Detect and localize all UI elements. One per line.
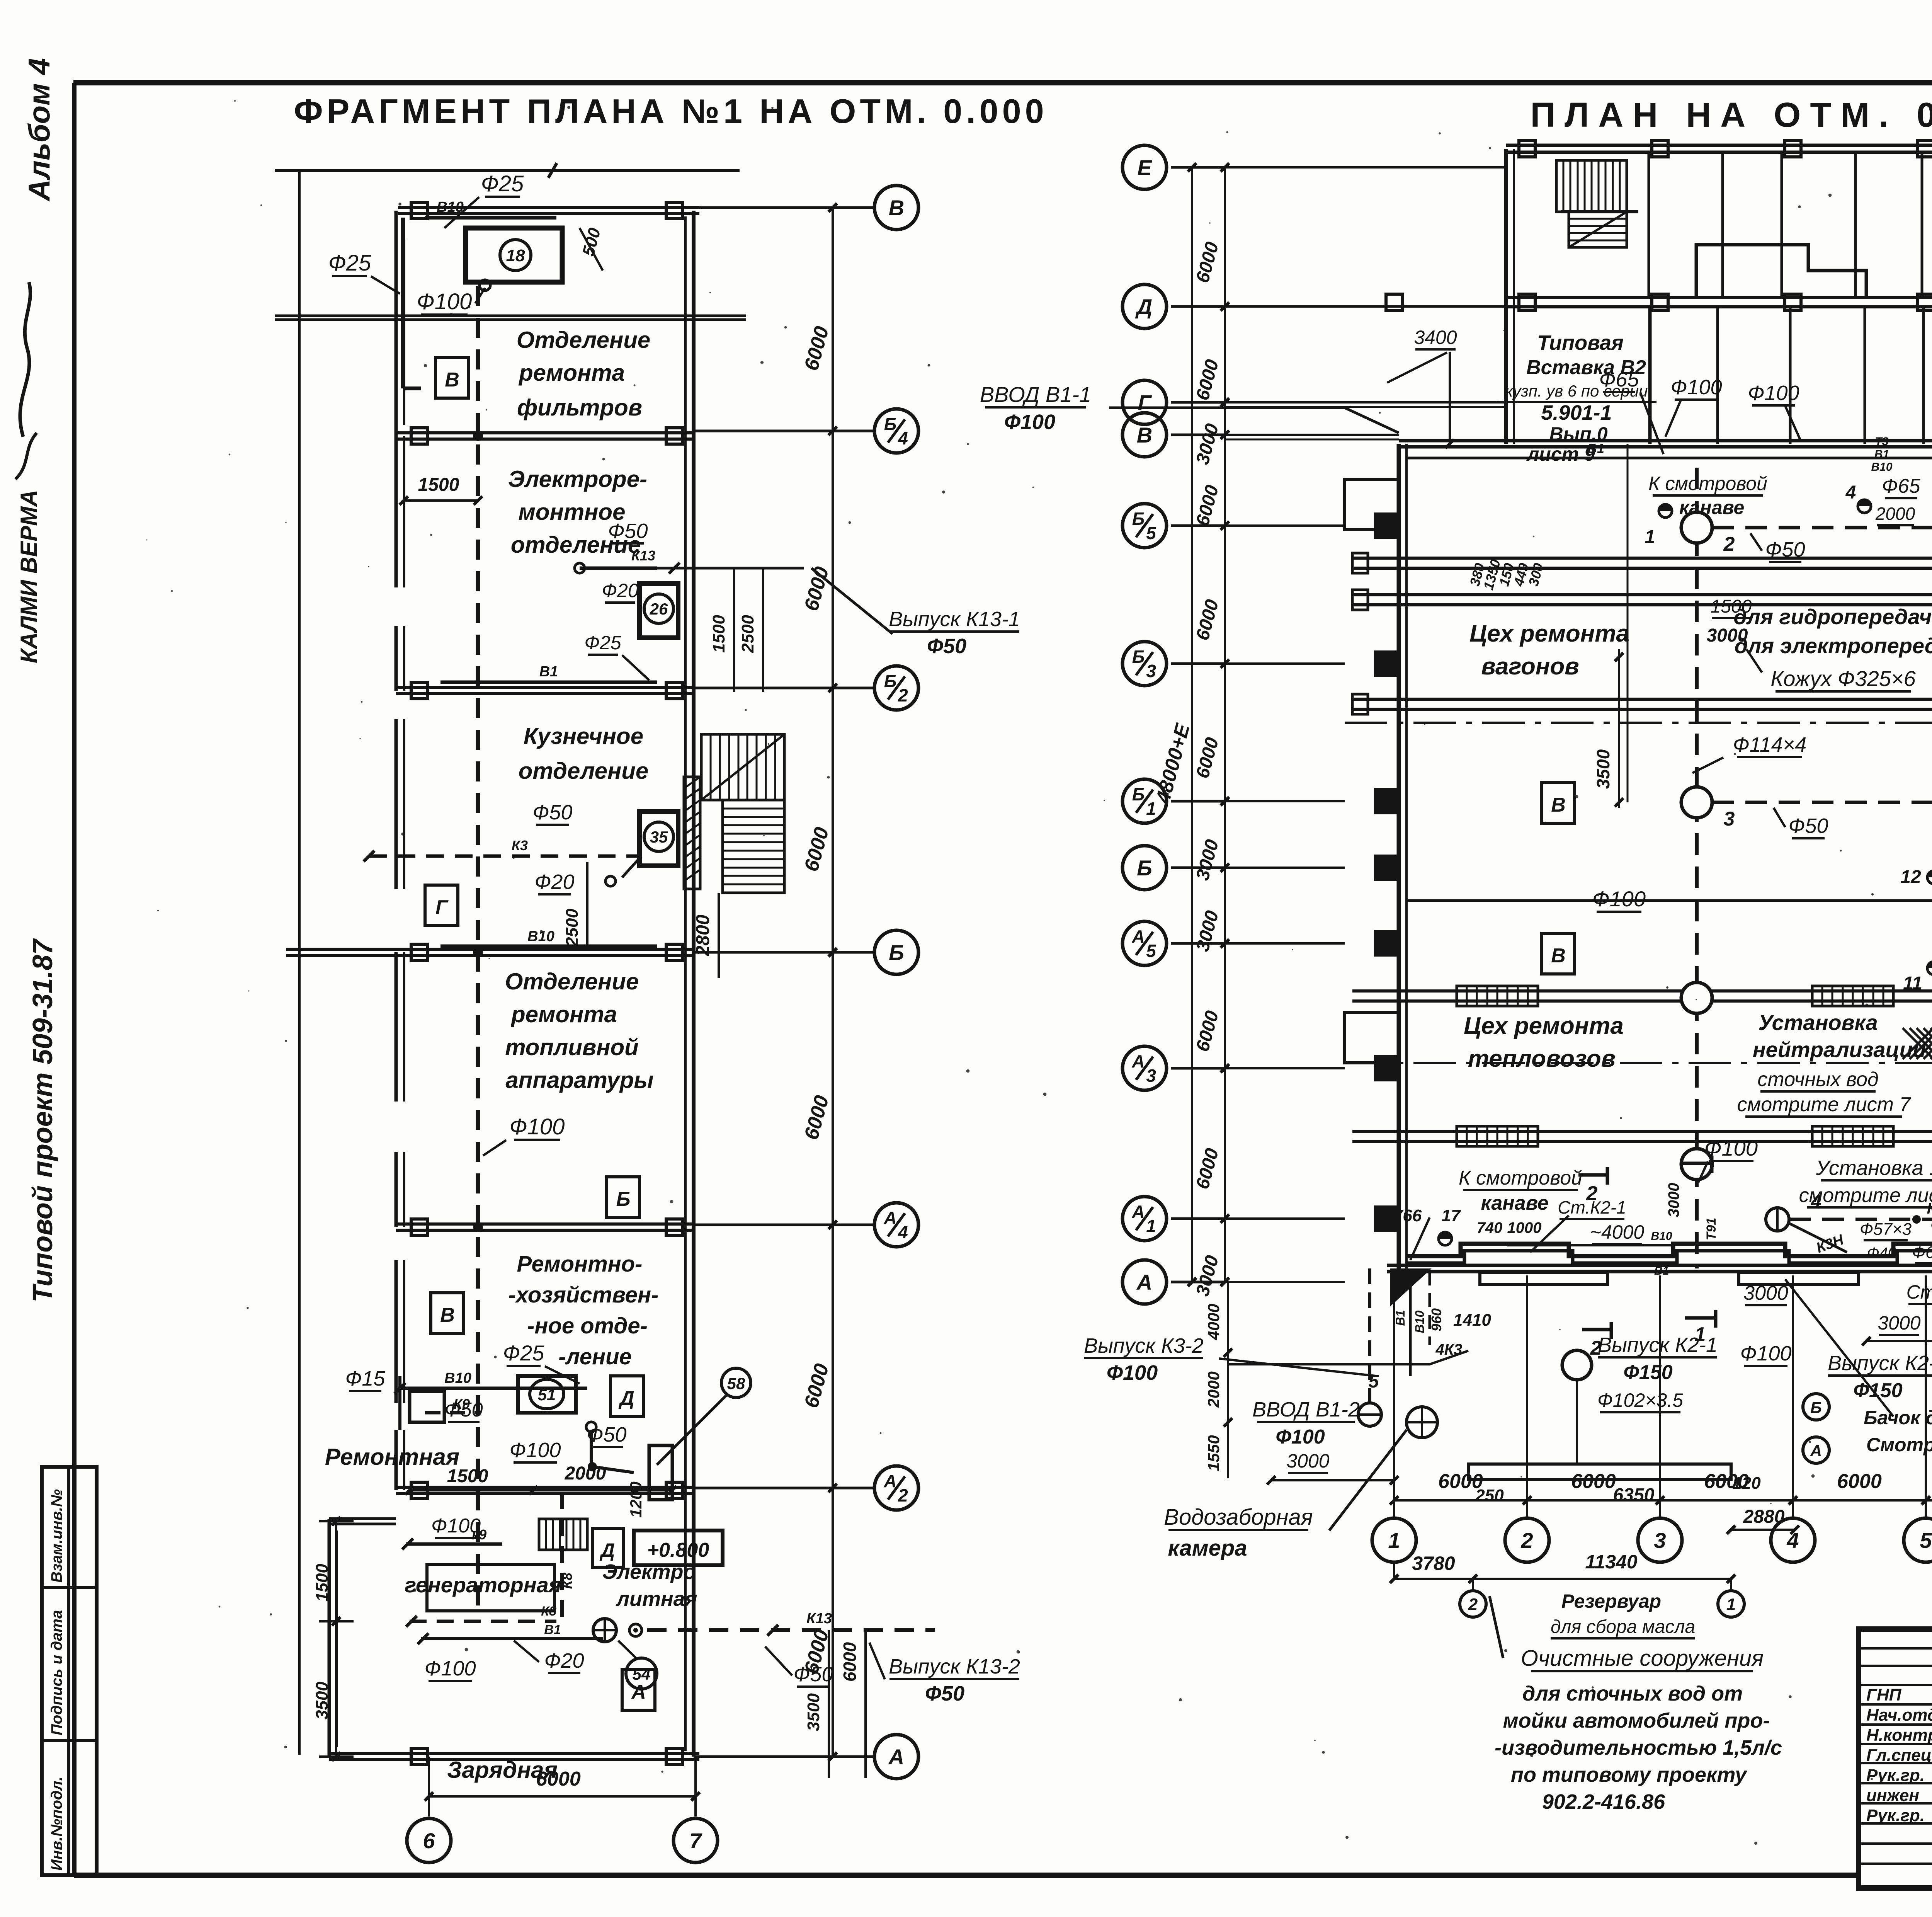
svg-text:4К3: 4К3 (1435, 1341, 1462, 1358)
svg-text:Ф150: Ф150 (1623, 1361, 1672, 1384)
axis circle А/2 (left plan) (874, 1466, 918, 1510)
svg-text:Е: Е (1137, 155, 1152, 180)
svg-text:Ф65: Ф65 (1882, 475, 1920, 497)
svg-text:1: 1 (1146, 1216, 1156, 1236)
left plan: circled 54 (626, 1658, 657, 1689)
axis circle Б/1 (center plan left) (1122, 779, 1167, 823)
svg-text:Отделение: Отделение (505, 969, 639, 994)
center plan: K3 horizontal dashed row 2 (1712, 801, 1932, 804)
svg-text:6000: 6000 (1837, 1470, 1882, 1493)
svg-text:Ф20: Ф20 (535, 870, 575, 894)
axis circle Е (center plan left) (1122, 145, 1167, 189)
svg-text:К13: К13 (806, 1611, 832, 1627)
svg-text:Электроре-: Электроре- (508, 466, 647, 492)
axis circle А/3 (center plan left) (1122, 1046, 1167, 1090)
center plan: drain channel rect bottom (1468, 1464, 1731, 1479)
left plan: room class box B(Б) (607, 1177, 639, 1217)
svg-text:ВВОД В1-2: ВВОД В1-2 (1252, 1398, 1360, 1421)
svg-text:ремонта: ремонта (510, 1001, 617, 1027)
svg-text:11340: 11340 (1585, 1551, 1638, 1573)
svg-text:Ф15: Ф15 (345, 1367, 386, 1390)
center plan: water intake symbol (1406, 1407, 1437, 1438)
svg-text:11: 11 (1903, 973, 1922, 994)
svg-text:Ф100: Ф100 (1670, 376, 1722, 399)
svg-text:2: 2 (1590, 1337, 1602, 1359)
svg-text:аппаратуры: аппаратуры (505, 1067, 653, 1093)
left plan: right wall (692, 211, 696, 1757)
center plan: K3H dashed run bottom (1766, 1208, 1789, 1231)
svg-text:1500: 1500 (418, 475, 459, 495)
svg-text:1500: 1500 (1711, 596, 1752, 617)
axis circle А (center plan left) (1122, 1260, 1167, 1304)
axis circle Б/3 (center plan left) (1122, 642, 1167, 686)
left plan: dashed K3 line kuznech (369, 855, 641, 858)
center plan: left overall dim line 48000+E (1191, 167, 1193, 1282)
svg-text:1500: 1500 (709, 615, 728, 653)
center plan: annex top wall (1506, 144, 1932, 147)
center plan: hall track band 2 (1352, 593, 1932, 596)
svg-text:Кузнечное: Кузнечное (524, 723, 643, 749)
axis circle А (left plan) (874, 1735, 918, 1779)
svg-text:5: 5 (1146, 523, 1156, 543)
center plan: left dim line segments (1224, 167, 1226, 1282)
axis circle В (left plan) (874, 186, 918, 230)
svg-text:К8: К8 (559, 1573, 575, 1589)
svg-text:2000: 2000 (565, 1463, 606, 1484)
svg-text:В1: В1 (544, 1622, 561, 1637)
left plan: wall axis A/4 (396, 1222, 694, 1226)
axis circle Г (center plan left) (1122, 380, 1167, 424)
left plan: equipment 35 (639, 812, 678, 866)
svg-text:2: 2 (1520, 1528, 1533, 1553)
center plan: annex staircase (1556, 160, 1627, 212)
svg-text:для сточных вод от: для сточных вод от (1522, 1682, 1743, 1705)
svg-text:Цех ремонта: Цех ремонта (1464, 1013, 1624, 1039)
axis circle А/1 (center plan left) (1122, 1197, 1167, 1241)
svg-text:Ремонтно-: Ремонтно- (517, 1251, 643, 1277)
svg-text:2880: 2880 (1743, 1507, 1785, 1527)
svg-text:В: В (1551, 794, 1566, 816)
svg-text:А: А (1810, 1442, 1822, 1460)
title block main frame (1859, 1629, 1932, 1888)
svg-text:Б: Б (884, 671, 897, 691)
bottom-left strip table (42, 1467, 97, 1875)
svg-text:Установка 1кЗН: Установка 1кЗН (1816, 1156, 1932, 1180)
svg-text:6350: 6350 (1613, 1485, 1655, 1505)
left plan: staircase outside right wall (701, 734, 784, 800)
svg-text:Кожух Ф325×6: Кожух Ф325×6 (1770, 666, 1916, 691)
center plan: axis line extensions to walls (1225, 166, 1506, 169)
svg-text:Смотрите лист 7: Смотрите лист 7 (1866, 1434, 1932, 1456)
svg-text:Ф20: Ф20 (544, 1649, 584, 1672)
center plan: mid band room (tipovaya vstavka) (1648, 307, 1652, 444)
center plan: hall left wall pilasters (1376, 514, 1399, 537)
svg-text:А: А (1131, 1051, 1145, 1071)
svg-text:18: 18 (506, 246, 525, 265)
svg-text:А: А (888, 1745, 904, 1769)
svg-text:канаве: канаве (1679, 497, 1745, 518)
svg-text:Н.контр: Н.контр (1866, 1726, 1932, 1745)
axis circle Д (center plan left) (1122, 284, 1167, 329)
svg-text:Ф25: Ф25 (503, 1341, 545, 1365)
svg-text:Ф100: Ф100 (510, 1114, 565, 1139)
left plan: left wall segments (395, 436, 398, 587)
svg-text:фильтров: фильтров (517, 395, 642, 421)
svg-text:2500: 2500 (563, 909, 582, 947)
svg-text:~4000: ~4000 (1590, 1221, 1645, 1243)
svg-text:Инв.№подл.: Инв.№подл. (48, 1776, 65, 1871)
center plan: annex inner room (top middle) (1696, 245, 1866, 298)
svg-text:Ф50: Ф50 (1765, 538, 1805, 561)
axis circle В (center plan left) (1122, 413, 1167, 457)
svg-text:3000: 3000 (1286, 1450, 1329, 1472)
center plan: vertical thin line x=4190 (1627, 444, 1629, 802)
svg-text:мойки автомобилей про-: мойки автомобилей про- (1503, 1709, 1770, 1732)
svg-text:А: А (1131, 926, 1145, 947)
left plan: room class box D (611, 1376, 643, 1416)
svg-text:Б: Б (1810, 1398, 1822, 1416)
svg-text:4: 4 (898, 428, 908, 448)
svg-text:В10: В10 (444, 1370, 471, 1386)
svg-text:3500: 3500 (1593, 749, 1613, 789)
svg-text:К3: К3 (1927, 1200, 1932, 1217)
left plan: outer long vertical guide line (298, 170, 301, 1755)
svg-text:к9: к9 (472, 1527, 486, 1542)
left plan: riser F25 vertical (401, 218, 405, 388)
svg-text:отделение: отделение (519, 758, 649, 784)
svg-text:3000: 3000 (1665, 1183, 1682, 1217)
svg-text:2: 2 (898, 685, 908, 705)
svg-text:В1: В1 (1654, 1265, 1669, 1277)
svg-text:Гл.спец: Гл.спец (1866, 1746, 1932, 1765)
svg-text:Выпуск К13-1: Выпуск К13-1 (889, 608, 1020, 631)
svg-text:ФРАГМЕНТ ПЛАНА №1 НА ОТМ. 0.00: ФРАГМЕНТ ПЛАНА №1 НА ОТМ. 0.000 (294, 92, 1048, 130)
center plan: hall track band 1 (1352, 557, 1932, 560)
svg-text:3: 3 (1146, 1066, 1156, 1086)
svg-text:Ст.К2-1: Ст.К2-1 (1558, 1197, 1626, 1217)
svg-text:канаве: канаве (1481, 1192, 1548, 1214)
svg-text:1: 1 (1388, 1528, 1400, 1553)
left plan: pipe B1 along wall (440, 681, 657, 684)
svg-text:Ф100: Ф100 (417, 289, 472, 314)
svg-text:Т91: Т91 (1704, 1218, 1719, 1241)
center plan: F102x3.5 + circle (1562, 1350, 1592, 1380)
svg-text:2000: 2000 (1204, 1371, 1223, 1408)
center plan: outlet arrow blob (1390, 1268, 1432, 1306)
svg-text:тепловозов: тепловозов (1468, 1045, 1616, 1072)
center plan: mid band partitions (1716, 307, 1719, 444)
svg-text:К смотровой: К смотровой (1648, 473, 1767, 494)
svg-text:3: 3 (1146, 661, 1156, 681)
svg-text:Водозаборная: Водозаборная (1164, 1505, 1313, 1530)
svg-text:1: 1 (1146, 798, 1156, 819)
center plan: B boxes (1542, 783, 1575, 823)
svg-text:топливной: топливной (505, 1034, 639, 1060)
svg-text:4: 4 (1845, 482, 1856, 503)
svg-text:Ф50: Ф50 (533, 801, 573, 824)
center plan: B1 pipe along top wall (1406, 457, 1932, 460)
center plan: hall track band 3 (1352, 698, 1932, 701)
center plan: lower second dim row 3780 11340 (1394, 1578, 1473, 1580)
svg-text:6000: 6000 (1571, 1470, 1616, 1493)
left plan: room class box A (622, 1670, 655, 1710)
center plan: hall track band 4 (teplovoz) (1352, 989, 1932, 993)
svg-text:Выпуск К3-2: Выпуск К3-2 (1084, 1334, 1204, 1357)
svg-text:902.2-416.86: 902.2-416.86 (1542, 1790, 1665, 1813)
svg-text:Д: Д (1135, 295, 1152, 319)
svg-text:2500: 2500 (738, 615, 757, 653)
center plan: pump 5 (1358, 1403, 1381, 1426)
svg-text:В10: В10 (1651, 1230, 1672, 1243)
svg-text:-ное отде-: -ное отде- (527, 1313, 648, 1338)
svg-text:4: 4 (898, 1222, 908, 1242)
svg-text:Ф65: Ф65 (1599, 368, 1639, 391)
axis circle 2 (center plan bottom) (1505, 1518, 1549, 1562)
svg-text:В: В (1551, 945, 1566, 967)
svg-text:3780: 3780 (1412, 1553, 1455, 1574)
svg-text:Ф25: Ф25 (481, 171, 524, 196)
svg-text:Цех ремонта: Цех ремонта (1469, 620, 1629, 647)
svg-text:Ф50: Ф50 (444, 1399, 483, 1421)
svg-text:Ф100: Ф100 (1930, 1216, 1932, 1235)
svg-text:Ф100: Ф100 (424, 1657, 476, 1680)
center plan: B1 pipe mid wall (1406, 899, 1932, 902)
center plan: K3 vertical dashed main (1695, 468, 1699, 1268)
svg-text:1410: 1410 (1453, 1311, 1491, 1330)
svg-text:Взам.инв.№: Взам.инв.№ (48, 1489, 65, 1583)
center plan: K3 junction circles (1681, 512, 1712, 543)
svg-text:Г: Г (435, 896, 449, 919)
svg-text:ремонта: ремонта (518, 360, 625, 386)
svg-text:В10: В10 (437, 199, 464, 215)
svg-text:3500: 3500 (804, 1693, 823, 1731)
scan speckles (928, 364, 930, 367)
svg-text:А: А (631, 1681, 646, 1703)
left plan: left wall upper (395, 211, 398, 436)
center plan: section mark 1 bottom (1685, 1316, 1716, 1320)
svg-text:Ф102×3.5: Ф102×3.5 (1597, 1389, 1683, 1411)
axis circle А/4 (left plan) (874, 1203, 918, 1247)
svg-text:Установка: Установка (1758, 1010, 1878, 1035)
svg-text:250: 250 (1475, 1486, 1504, 1505)
svg-text:4000: 4000 (1204, 1304, 1223, 1340)
center plan: left tambours (1345, 479, 1399, 529)
svg-text:960: 960 (1429, 1308, 1444, 1331)
axis circle А/5 (center plan left) (1122, 921, 1167, 965)
svg-text:А: А (1136, 1270, 1152, 1294)
svg-text:Рук.гр.: Рук.гр. (1866, 1806, 1925, 1825)
center plan: hall track band 5 (1352, 1130, 1932, 1133)
center plan: hall center dashdot line 2 (1345, 1062, 1932, 1064)
left plan: leaders to axis circles (694, 206, 874, 209)
left plan: room class box V2 (431, 1293, 464, 1333)
svg-text:3: 3 (1724, 808, 1735, 830)
svg-text:Ф100: Ф100 (1107, 1361, 1158, 1384)
svg-text:2800: 2800 (693, 914, 713, 956)
svg-text:Б: Б (1132, 647, 1145, 667)
svg-text:ПЛАН НА ОТМ. 0.000: ПЛАН НА ОТМ. 0.000 (1530, 96, 1932, 134)
svg-text:5.901-1: 5.901-1 (1541, 401, 1612, 424)
left plan: pipe row K8/B1 with valve 54 (410, 1620, 556, 1623)
sheet border frame (73, 80, 1932, 85)
svg-text:Ф100: Ф100 (1004, 410, 1055, 434)
svg-text:по типовому проекту: по типовому проекту (1511, 1763, 1748, 1786)
axis circle Б (left plan) (874, 930, 918, 974)
svg-text:камера: камера (1168, 1536, 1247, 1561)
axis circle 4 (center plan bottom) (1771, 1518, 1815, 1562)
left plan: hatched wall strip (684, 777, 700, 889)
svg-text:ГНП: ГНП (1866, 1685, 1902, 1704)
center plan: crosshatch mark bottom (1903, 1028, 1932, 1059)
svg-text:3000: 3000 (1743, 1282, 1788, 1304)
svg-text:Ф65: Ф65 (1912, 1243, 1932, 1262)
left plan: top outer wall (axis B) (398, 206, 699, 209)
left plan: eq F15 box (410, 1391, 444, 1422)
center plan: column squares along corridor (1386, 294, 1402, 310)
svg-text:В: В (1137, 423, 1152, 447)
left plan: dashed K13 to vypusk (647, 1628, 935, 1632)
center plan: south pipe zigzag band (1406, 1244, 1932, 1256)
svg-text:Б: Б (1137, 856, 1152, 880)
svg-text:-изводительностью 1,5л/с: -изводительностью 1,5л/с (1495, 1736, 1782, 1759)
left plan: box D2 (592, 1529, 623, 1567)
center plan: bottom dim row (1394, 1499, 1932, 1502)
svg-text:Альбом 4: Альбом 4 (22, 58, 56, 202)
svg-text:+0.800: +0.800 (647, 1539, 709, 1561)
left plan: box +0.800 (634, 1531, 723, 1565)
svg-text:6000: 6000 (536, 1768, 581, 1790)
svg-text:ВВОД В1-1: ВВОД В1-1 (980, 382, 1091, 407)
svg-text:3500: 3500 (313, 1682, 332, 1720)
left plan: room class box G (425, 885, 458, 926)
svg-text:Ф100: Ф100 (1276, 1426, 1325, 1448)
svg-text:Отделение: Отделение (517, 327, 651, 353)
left plan: stair small bottom (539, 1519, 587, 1550)
left plan: room class box V (435, 358, 468, 398)
svg-text:2000: 2000 (1875, 504, 1915, 524)
svg-text:нейтрализации: нейтрализации (1753, 1037, 1926, 1062)
center plan: hall top wall (1399, 439, 1932, 443)
svg-text:Б: Б (889, 940, 904, 965)
svg-text:Ремонтная: Ремонтная (325, 1444, 459, 1470)
svg-text:740: 740 (1477, 1219, 1503, 1236)
svg-text:Ф50: Ф50 (925, 1682, 964, 1705)
svg-text:В: В (440, 1304, 455, 1326)
axis circle Б (center plan left) (1122, 846, 1167, 890)
svg-text:инжен: инжен (1866, 1786, 1919, 1805)
svg-text:1200: 1200 (627, 1481, 645, 1517)
svg-text:1: 1 (1695, 1323, 1706, 1346)
svg-text:Т3: Т3 (1875, 435, 1888, 448)
svg-text:5: 5 (1146, 941, 1156, 961)
left plan: dashed K8 riser (560, 1492, 564, 1619)
svg-text:12: 12 (1900, 867, 1921, 887)
svg-text:Ф50: Ф50 (927, 635, 966, 658)
svg-text:Резервуар: Резервуар (1561, 1590, 1661, 1612)
svg-text:Ф100: Ф100 (1592, 887, 1646, 911)
center plan: section mark 2 top (1578, 1173, 1607, 1177)
svg-text:Ф114×4: Ф114×4 (1733, 733, 1807, 756)
svg-text:Д: Д (618, 1387, 634, 1410)
svg-text:3400: 3400 (1414, 327, 1457, 348)
axis circle Б/2 (left plan) (874, 666, 918, 710)
svg-text:В1: В1 (1393, 1310, 1407, 1326)
center plan: hall left wall (1397, 444, 1401, 1268)
left plan: band cut line under top room (275, 315, 746, 317)
left plan: right axis dimension line (832, 208, 834, 1757)
left plan: bottom dim row (428, 1757, 430, 1817)
svg-text:Нач.отд: Нач.отд (1866, 1706, 1932, 1725)
svg-text:Очистные сооружения: Очистные сооружения (1521, 1646, 1764, 1671)
axis circle Б/4 (left plan) (874, 409, 918, 453)
svg-text:В10: В10 (1871, 461, 1892, 473)
svg-text:Бачок для разрыва струи: Бачок для разрыва струи (1864, 1407, 1932, 1428)
left plan: pipe B10 second (440, 945, 657, 948)
svg-text:2: 2 (1723, 533, 1735, 555)
left plan: wall axis B/4 (396, 431, 694, 434)
center plan: pump 17 + lower left labels (1439, 1232, 1452, 1245)
left plan: wall axis B/2 (396, 686, 694, 689)
margin stamp and signature (20, 282, 31, 437)
left plan: wall axis B (middle) (286, 948, 694, 951)
svg-text:6000: 6000 (840, 1642, 860, 1682)
svg-text:Б: Б (884, 414, 897, 434)
center plan: hall bottom wall (1387, 1264, 1932, 1267)
svg-text:Ф25: Ф25 (584, 632, 621, 654)
svg-text:вагонов: вагонов (1481, 653, 1579, 680)
svg-text:Подпись и дата: Подпись и дата (48, 1610, 65, 1735)
svg-text:35: 35 (650, 828, 668, 846)
svg-text:Ф100: Ф100 (1740, 1342, 1791, 1365)
center plan: pump 12 + 11 (1927, 871, 1932, 884)
title block: left signature columns (1857, 1629, 1861, 1888)
svg-text:смотрите лист 7: смотрите лист 7 (1737, 1093, 1912, 1116)
left plan: equipment 26 (639, 584, 678, 638)
svg-text:-хозяйствен-: -хозяйствен- (509, 1282, 659, 1308)
svg-text:для сбора масла: для сбора масла (1551, 1617, 1695, 1637)
left plan: top cut line (275, 169, 740, 172)
svg-text:Ф100: Ф100 (509, 1439, 561, 1462)
svg-text:Типовая: Типовая (1537, 331, 1624, 354)
svg-text:Выпуск К13-2: Выпуск К13-2 (889, 1655, 1020, 1678)
axis circle Б/5 (center plan left) (1122, 504, 1167, 548)
left plan: wall axis A/2 (396, 1486, 694, 1489)
axis circle 3 (center plan bottom) (1638, 1518, 1682, 1562)
svg-text:2: 2 (898, 1485, 908, 1505)
svg-text:1500: 1500 (313, 1564, 332, 1602)
center plan: pump 1 (1659, 504, 1672, 518)
axis circle 1 (center plan bottom) (1372, 1518, 1416, 1562)
left plan: main riser dashed line V1 (476, 286, 480, 1614)
center plan: pump 4 + labels (1858, 500, 1871, 513)
svg-text:Ст.К2-2: Ст.К2-2 (1906, 1281, 1932, 1303)
center plan: hall center dashdot line 1 (1345, 722, 1932, 724)
svg-text:Рук.гр.: Рук.гр. (1866, 1766, 1925, 1785)
svg-text:-ление: -ление (558, 1344, 632, 1369)
center plan: annex left wall (1504, 149, 1508, 444)
left plan: column squares on walls (411, 203, 427, 219)
svg-text:К смотровой: К смотровой (1459, 1167, 1582, 1189)
svg-text:Д: Д (599, 1539, 615, 1561)
svg-text:Б: Б (616, 1188, 631, 1210)
svg-text:В10: В10 (1413, 1310, 1427, 1333)
center plan: annex bottom corridor walls (1506, 296, 1932, 299)
left plan: pipe B10 in top room (425, 216, 556, 220)
svg-text:КАЛМИ ВЕРМА: КАЛМИ ВЕРМА (16, 490, 42, 663)
center plan: K3 horizontal dashed row 1 (1712, 526, 1932, 529)
svg-text:Типовой проект 509-31.87: Типовой проект 509-31.87 (27, 938, 58, 1302)
svg-text:для гидропередачи: для гидропередачи (1734, 604, 1932, 629)
